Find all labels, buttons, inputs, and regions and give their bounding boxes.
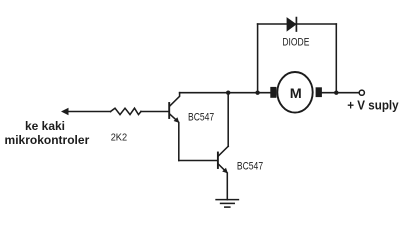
diode DIODE symbol bbox=[287, 18, 296, 31]
svg-text:2K2: 2K2 bbox=[111, 133, 128, 144]
svg-text:BC547: BC547 bbox=[237, 160, 263, 172]
wire diode loop top bbox=[258, 23, 337, 25]
node junction Q2 collector / rail bbox=[226, 91, 230, 95]
transistor Q1 emitter bbox=[170, 114, 178, 121]
motor left brush bbox=[270, 87, 276, 98]
wire motor to supply terminal bbox=[322, 92, 359, 94]
svg-text:DIODE: DIODE bbox=[282, 37, 309, 49]
wire Q2 collector to rail bbox=[227, 93, 229, 147]
transistor Q1 collector bbox=[170, 93, 180, 107]
transistor Q2 emitter bbox=[218, 164, 226, 172]
svg-text:ke kaki: ke kaki bbox=[25, 119, 65, 133]
motor right brush bbox=[316, 87, 322, 97]
svg-text:mikrokontroler: mikrokontroler bbox=[5, 133, 90, 147]
wire Q1 emitter to Q2 base bbox=[179, 160, 218, 162]
terminal + V supply open circle bbox=[359, 90, 364, 95]
wire Q2 emitter down to ground bbox=[226, 173, 228, 200]
transistor Q2 BC547 base bar bbox=[217, 153, 219, 169]
node junction diode right / supply wire bbox=[334, 91, 338, 95]
motor M body bbox=[277, 72, 312, 113]
transistor Q2 emitter arrowhead bbox=[222, 168, 228, 174]
transistor Q1 emitter arrowhead bbox=[174, 117, 180, 123]
transistor Q2 collector bbox=[218, 146, 228, 156]
resistor R1 2K2 zigzag bbox=[111, 108, 142, 114]
wire input line from arrow to resistor bbox=[66, 111, 111, 113]
diode cathode bar bbox=[295, 18, 297, 31]
wire Q1 emitter down bbox=[178, 123, 180, 161]
svg-text:+ V suply: + V suply bbox=[347, 97, 399, 112]
wire diode loop right vertical bbox=[335, 24, 337, 93]
ground bbox=[216, 200, 238, 208]
svg-text:BC547: BC547 bbox=[188, 111, 214, 123]
wire top rail Q1 collector to motor bbox=[180, 92, 272, 94]
transistor Q1 BC547 base bar bbox=[168, 103, 170, 118]
svg-text:M: M bbox=[290, 85, 302, 101]
node junction diode left / rail bbox=[255, 91, 259, 95]
wire resistor to Q1 base bbox=[141, 111, 169, 113]
wire diode loop left vertical bbox=[257, 24, 259, 93]
arrowhead to microcontroller bbox=[61, 108, 69, 116]
